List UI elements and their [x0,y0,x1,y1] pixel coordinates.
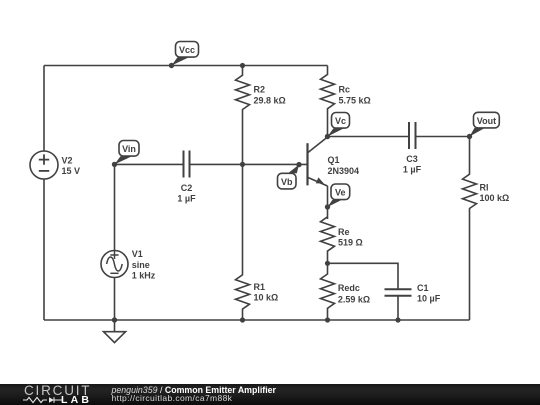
label Re 519 ohm [338,227,363,248]
label V1 sine 1 kHz [132,249,156,281]
svg-text:Ve: Ve [335,188,346,198]
wire C3 to Vout [416,136,470,138]
resistor Rc [321,66,335,137]
wire emitter down [327,186,329,219]
label C1 10 uF [417,283,441,303]
wire top rail [44,65,328,67]
wire left rail lower [43,179,45,320]
svg-text:10 kΩ: 10 kΩ [254,293,279,303]
voltage source V1 sine [101,251,128,278]
node Vc [325,113,350,140]
junction dot ground [112,317,117,322]
svg-text:1 µF: 1 µF [403,165,422,175]
capacitor C3 [409,122,416,149]
node Vin [112,141,139,168]
wire Re junction to C1 [328,263,399,289]
junction dot C1 bottom rail [395,317,400,322]
capacitor C2 [184,151,190,178]
wire Vin to C2 [115,163,184,165]
svg-text:2N3904: 2N3904 [328,166,360,176]
label Rc 5.75 k [339,85,371,106]
node Vcc [169,42,199,69]
junction dot R2 top [240,63,245,68]
svg-text:V2: V2 [62,155,73,165]
label R2 29.8 k [254,85,286,106]
label C2 1 uF [177,183,196,204]
svg-text:Q1: Q1 [328,155,340,165]
svg-text:Vcc: Vcc [179,45,195,55]
label Rl 100 k [480,182,510,203]
label C3 1 uF [403,154,422,175]
svg-text:Redc: Redc [338,283,360,293]
wire V1 bottom [114,278,116,321]
junction dot divider [240,162,245,167]
node Ve [325,184,350,210]
circuitlab logo [24,386,91,397]
label V2 15 V [62,155,81,175]
wire Vin column down to V1 [114,164,116,250]
voltage source V2 [30,151,58,179]
node Vb [278,162,302,189]
ground [104,320,126,343]
wire C2 to R divider [190,163,243,165]
svg-text:5.75 kΩ: 5.75 kΩ [339,95,371,105]
resistor Rl [463,137,477,321]
junction dot Redc bottom rail [325,317,330,322]
svg-text:10 µF: 10 µF [417,293,441,303]
wire collector row to C3 [328,136,410,138]
transistor Q1 [308,137,328,186]
svg-text:sine: sine [132,260,150,270]
svg-text:29.8 kΩ: 29.8 kΩ [254,95,286,105]
resistor Re [321,217,335,263]
svg-text:C1: C1 [417,283,429,293]
svg-text:Rl: Rl [480,182,489,192]
wire bottom rail [44,319,470,321]
svg-text:R2: R2 [254,85,266,95]
svg-text:1 µF: 1 µF [177,193,196,203]
svg-text:C2: C2 [181,183,193,193]
wire base [243,163,308,165]
svg-text:Vin: Vin [122,144,136,154]
resistor R2 [236,66,250,165]
label R1 10 k [254,282,279,303]
label Redc 2.59 k [338,283,370,304]
resistor R1 [236,164,250,320]
svg-text:15 V: 15 V [62,166,81,176]
node Vout [467,112,500,139]
svg-text:Vout: Vout [477,116,496,126]
footer bar [0,384,540,405]
wire C1 bottom [397,296,399,320]
junction dot Re bottom [325,261,330,266]
svg-text:1 kHz: 1 kHz [132,271,156,281]
svg-text:R1: R1 [254,282,266,292]
svg-text:Vb: Vb [281,177,293,187]
junction dot R1 bottom rail [240,317,245,322]
svg-text:Vc: Vc [335,116,346,126]
svg-text:100 kΩ: 100 kΩ [480,193,510,203]
capacitor C1 [385,289,412,296]
resistor Redc [321,263,335,320]
svg-text:Re: Re [338,227,350,237]
svg-text:V1: V1 [132,249,143,259]
svg-text:2.59 kΩ: 2.59 kΩ [338,294,370,304]
wire left rail upper [43,66,45,152]
svg-text:C3: C3 [406,154,418,164]
svg-text:Rc: Rc [339,85,351,95]
label Q1 2N3904 [328,155,360,176]
svg-text:519 Ω: 519 Ω [338,238,363,248]
